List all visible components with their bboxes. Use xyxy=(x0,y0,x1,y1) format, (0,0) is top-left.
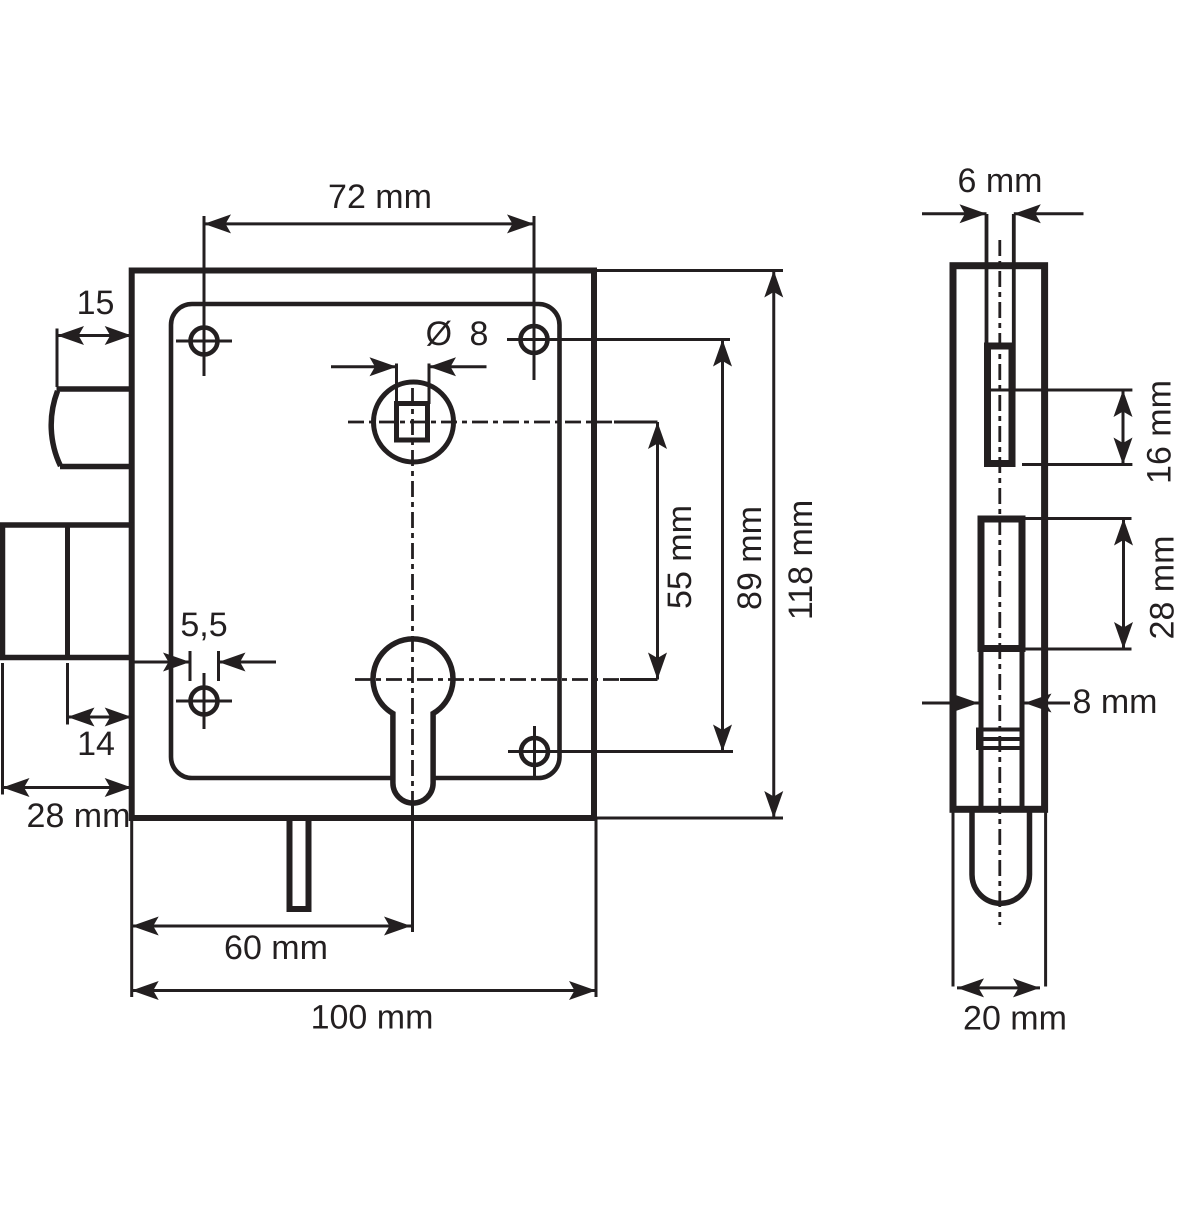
lower plate side lines xyxy=(953,813,1046,987)
dimension 72 mm xyxy=(204,216,534,380)
side body outline xyxy=(953,266,1045,810)
lock case outer plate xyxy=(132,271,594,819)
deadbolt (left bottom) xyxy=(3,525,132,658)
screw hole top-left xyxy=(176,328,232,355)
screw hole bottom-left xyxy=(176,673,232,729)
vertical center line through spindle and keyhole xyxy=(411,388,414,806)
spindle square hole xyxy=(397,404,428,441)
square stem below case xyxy=(290,818,309,909)
svg-text:89 mm: 89 mm xyxy=(731,506,769,610)
side view center line xyxy=(998,240,1001,925)
lower slot (28 mm) xyxy=(981,519,1022,649)
retaining clip small rect xyxy=(978,730,1022,749)
spindle hub circle xyxy=(374,382,454,462)
svg-text:20 mm: 20 mm xyxy=(963,1000,1067,1038)
dimension 15 xyxy=(57,329,132,388)
svg-text:28 mm: 28 mm xyxy=(1144,536,1182,640)
dimension 16 mm xyxy=(1014,390,1132,465)
dimension 5,5 (fixing hole) xyxy=(132,651,276,681)
dimension 60 mm xyxy=(132,806,413,932)
svg-text:16 mm: 16 mm xyxy=(1141,380,1179,484)
svg-text:100 mm: 100 mm xyxy=(311,999,434,1037)
svg-text:5,5: 5,5 xyxy=(180,606,227,644)
svg-text:8 mm: 8 mm xyxy=(1073,683,1158,721)
bolt channel lines below slot xyxy=(981,649,1022,810)
latch bolt (left top) xyxy=(51,389,131,467)
svg-text:60 mm: 60 mm xyxy=(224,929,328,967)
dimension 20 mm xyxy=(957,986,1040,989)
svg-text:28 mm: 28 mm xyxy=(27,797,131,835)
svg-text:55 mm: 55 mm xyxy=(661,505,699,609)
dimension 14 xyxy=(68,663,132,725)
bolt rod (6 mm) xyxy=(987,214,1014,390)
svg-text:118 mm: 118 mm xyxy=(782,500,820,620)
svg-text:Ø 8: Ø 8 xyxy=(426,315,493,353)
horizontal center line through keyhole xyxy=(355,678,620,681)
horizontal center line through spindle xyxy=(348,421,614,424)
dimension diameter 8 (spindle) xyxy=(331,364,487,405)
dimension 6 mm xyxy=(922,212,1084,215)
U-shaped latch slot in lower plate xyxy=(972,810,1030,903)
svg-text:15: 15 xyxy=(77,284,115,322)
dimension 8 mm xyxy=(922,702,1070,705)
upper slot (16 mm travel) xyxy=(988,346,1013,464)
deadbolt inner edge line xyxy=(65,525,70,658)
dimension 28 mm (deadbolt width) xyxy=(3,663,132,795)
dimension 89 mm (vertical right) xyxy=(508,340,733,752)
screw hole bottom-right xyxy=(521,726,548,778)
svg-text:14: 14 xyxy=(77,725,115,763)
svg-text:6 mm: 6 mm xyxy=(958,162,1043,200)
dimension 100 mm xyxy=(132,818,596,997)
dimension 55 mm (vertical right) xyxy=(614,422,658,680)
lock case inner rounded face plate xyxy=(171,304,560,778)
keyhole xyxy=(373,639,453,803)
dimension 118 mm (vertical right) xyxy=(597,271,783,819)
dimension 28 mm (side) xyxy=(1023,519,1132,650)
svg-text:72 mm: 72 mm xyxy=(328,178,432,216)
screw hole top-right xyxy=(507,326,567,353)
